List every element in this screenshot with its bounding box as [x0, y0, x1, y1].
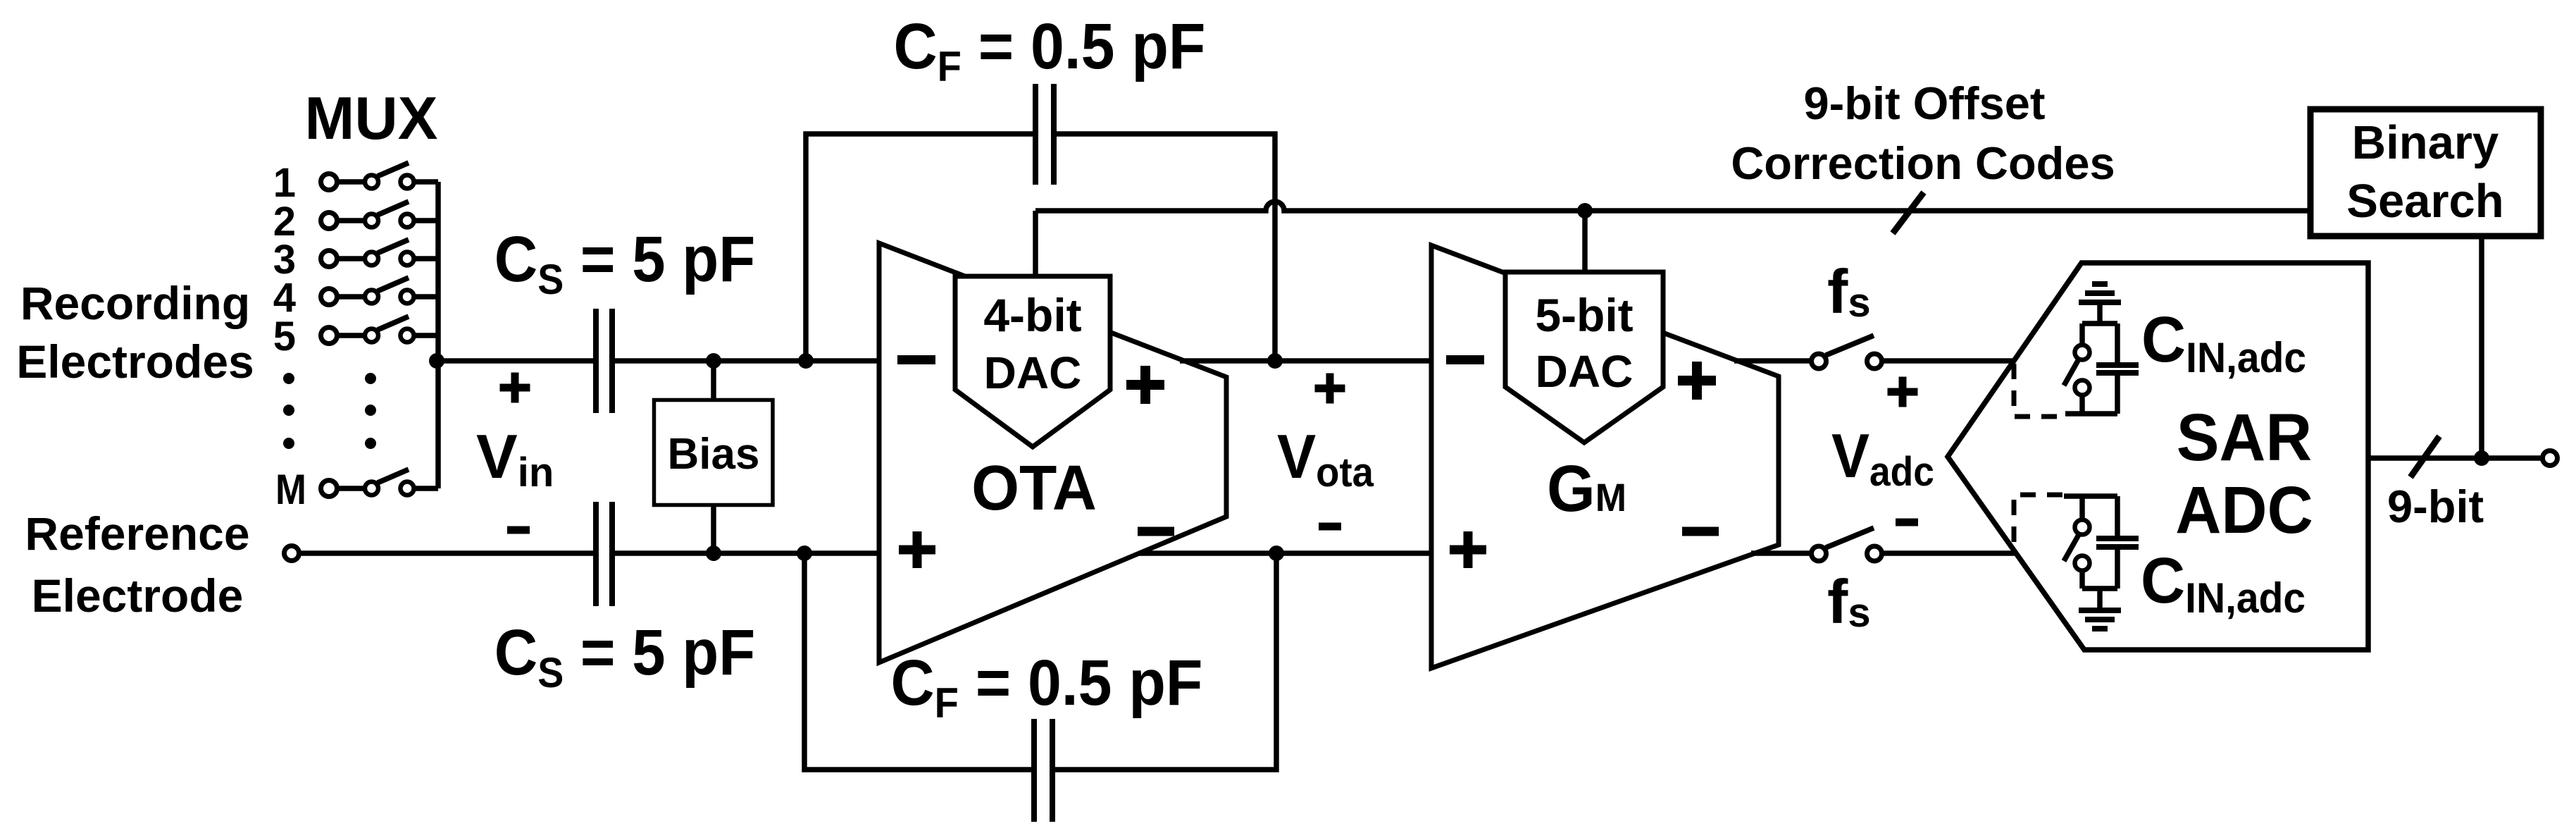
- 4-bit DAC shield: [955, 276, 1110, 447]
- wire Vota- (OTA out to GM in): [1139, 550, 1431, 556]
- OTA output plus sign: [1126, 366, 1164, 404]
- Vadc plus sign: [1888, 377, 1918, 407]
- MUX switch row 1: [273, 160, 438, 206]
- Binary Search box: [2310, 109, 2541, 236]
- capacitor CIN top: [2096, 365, 2139, 373]
- wire 4-bit DAC to codes bus: [1033, 211, 1038, 278]
- Vin label: [476, 421, 554, 495]
- Vadc minus sign: [1896, 519, 1918, 526]
- junction CF top right: [1267, 353, 1283, 369]
- capacitor CF bottom: [1034, 719, 1052, 822]
- 5-bit DAC label: [1535, 289, 1633, 397]
- output terminal: [2543, 451, 2558, 466]
- Bias box: [654, 400, 773, 505]
- SAR ADC body: [1948, 263, 2368, 650]
- OTA label: [971, 452, 1097, 523]
- svg-text:OTA: OTA: [971, 452, 1097, 523]
- Recording Electrodes label: [16, 277, 254, 388]
- 5-bit DAC shield: [1505, 272, 1663, 443]
- wire GM out+ to switch: [1734, 358, 1812, 364]
- junction codes to 5-bit DAC: [1577, 203, 1593, 218]
- wire SAR output: [2368, 455, 2543, 461]
- Vota plus sign: [1315, 374, 1345, 404]
- GM output plus sign: [1678, 362, 1716, 400]
- MUX switch row M: [275, 466, 438, 513]
- wire CF bottom loop: [804, 553, 1276, 770]
- ground bottom: [2079, 589, 2121, 629]
- 9-bit Offset Correction Codes label: [1731, 78, 2115, 189]
- codes bus slash: [1893, 192, 1924, 233]
- svg-text:Reference: Reference: [25, 507, 249, 560]
- Bias label: [668, 430, 760, 479]
- label CIN,adc top: [2141, 304, 2306, 381]
- wire Vin- line: [299, 550, 880, 556]
- switch bottom CIN sampling: [2064, 496, 2117, 589]
- MUX switch row 4: [273, 275, 438, 321]
- GM label: [1547, 452, 1626, 526]
- svg-text:Search: Search: [2346, 175, 2503, 228]
- svg-text:Electrode: Electrode: [32, 569, 244, 622]
- SAR ADC label: [2175, 400, 2313, 547]
- wire GM out- to switch: [1751, 550, 1812, 556]
- wire 5-bit DAC to codes bus: [1582, 211, 1588, 275]
- dashed link bottom: [2014, 495, 2062, 550]
- label fs bottom: [1827, 567, 1871, 636]
- capacitor CS bottom: [596, 502, 612, 606]
- Reference Electrode label: [25, 507, 249, 622]
- OTA output minus sign: [1138, 527, 1174, 536]
- 9-bit label: [2387, 481, 2484, 532]
- svg-text:5-bit: 5-bit: [1535, 289, 1633, 341]
- svg-text:M: M: [275, 466, 306, 513]
- svg-text:CS = 5 pF: CS = 5 pF: [494, 616, 755, 697]
- Vota minus sign: [1319, 523, 1341, 531]
- label CS top = 5 pF: [494, 223, 755, 304]
- junction CF top left: [798, 353, 814, 369]
- svg-text:Electrodes: Electrodes: [16, 335, 254, 388]
- junction CF bottom left: [797, 546, 812, 561]
- svg-text:ADC: ADC: [2175, 472, 2313, 548]
- svg-text:9-bit: 9-bit: [2387, 481, 2484, 532]
- wire Vin+ line: [438, 358, 879, 364]
- label CIN,adc bottom: [2141, 545, 2306, 622]
- wire bias bottom: [711, 505, 716, 553]
- wire switch to SAR-: [1882, 550, 2017, 556]
- OTA input plus sign: [899, 531, 935, 568]
- svg-text:MUX: MUX: [305, 85, 438, 152]
- OTA input minus sign: [897, 355, 935, 364]
- junction output: [2474, 450, 2489, 466]
- svg-text:Bias: Bias: [668, 430, 760, 479]
- 4-bit DAC label: [983, 289, 1081, 398]
- switch fs top: [1812, 335, 1882, 369]
- reference electrode terminal: [285, 546, 299, 561]
- label CF top = 0.5 pF: [894, 9, 1206, 90]
- label CS bottom = 5 pF: [494, 616, 755, 697]
- wire CF top loop: [806, 134, 1275, 361]
- switch top CIN sampling: [2064, 324, 2117, 414]
- Vota label: [1277, 423, 1374, 495]
- MUX label: [305, 85, 438, 152]
- wire bias top: [711, 361, 716, 400]
- svg-text:Correction Codes: Correction Codes: [1731, 137, 2115, 189]
- Vin minus sign: [507, 526, 530, 534]
- svg-text:5: 5: [273, 314, 296, 359]
- dashed link top: [2014, 364, 2062, 417]
- label CF bottom = 0.5 pF: [891, 646, 1203, 727]
- GM input minus sign: [1446, 355, 1484, 364]
- ground top (flipped): [2079, 284, 2121, 324]
- junction MUX bus to Vin+: [429, 353, 444, 369]
- capacitor CS top: [596, 309, 612, 413]
- svg-text:Binary: Binary: [2352, 116, 2499, 169]
- wire Binary Search to output: [2479, 236, 2484, 458]
- junction bias top: [706, 353, 721, 369]
- svg-text:Recording: Recording: [20, 277, 250, 329]
- MUX output bus wire: [435, 182, 441, 488]
- op-amp OTA body: [879, 243, 1226, 663]
- svg-text:DAC: DAC: [984, 347, 1082, 398]
- wire Vota+ (OTA out to GM in): [1180, 358, 1431, 364]
- svg-text:SAR: SAR: [2177, 400, 2313, 474]
- svg-text:DAC: DAC: [1536, 346, 1634, 397]
- label fs top: [1827, 257, 1871, 326]
- capacitor CIN bottom: [2096, 538, 2139, 547]
- MUX switch row 3: [273, 237, 438, 283]
- Binary Search label: [2346, 116, 2503, 228]
- GM input plus sign: [1450, 531, 1486, 568]
- junction bias bottom: [706, 546, 721, 561]
- output slash: [2410, 436, 2439, 477]
- MUX switch row 2: [273, 199, 438, 245]
- capacitor CF top: [1035, 84, 1054, 185]
- Vadc label: [1831, 421, 1934, 495]
- junction CF bottom right: [1269, 546, 1284, 561]
- svg-text:CS = 5 pF: CS = 5 pF: [494, 223, 755, 304]
- GM output minus sign: [1682, 527, 1719, 536]
- switch fs bottom: [1812, 528, 1882, 561]
- MUX ellipsis dots: [283, 373, 376, 449]
- wire 9-bit offset correction codes bus: [1035, 202, 2310, 211]
- amplifier GM body: [1431, 245, 1779, 668]
- Vin plus sign: [500, 373, 530, 403]
- svg-text:9-bit Offset: 9-bit Offset: [1803, 78, 2045, 129]
- svg-text:4-bit: 4-bit: [983, 289, 1081, 341]
- MUX switch row 5: [273, 314, 438, 359]
- wire switch to SAR+: [1882, 358, 2015, 364]
